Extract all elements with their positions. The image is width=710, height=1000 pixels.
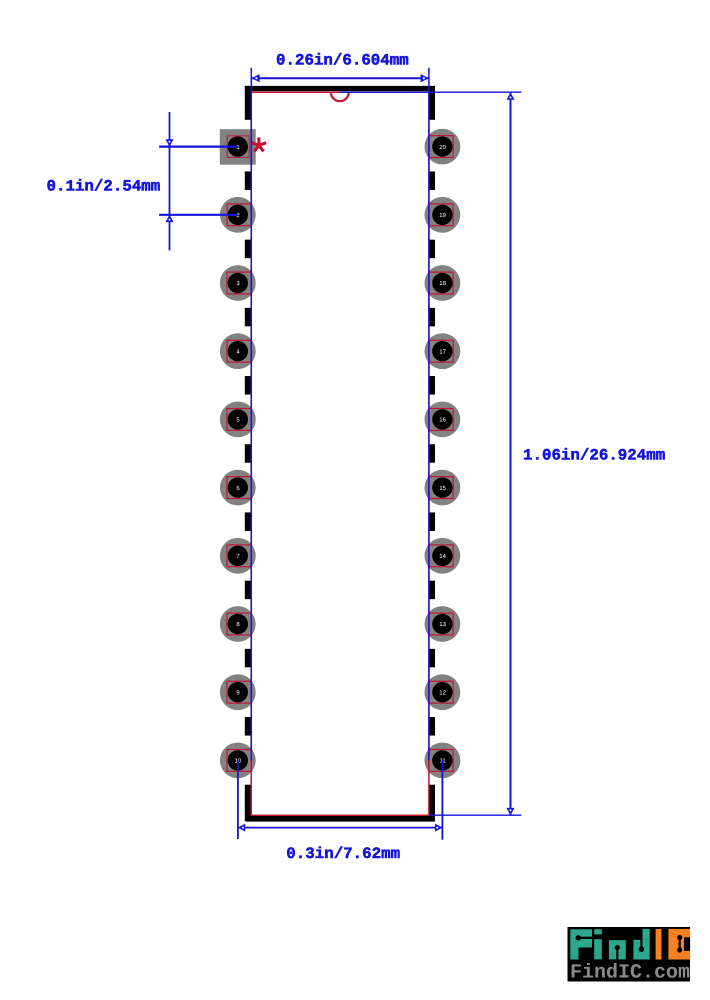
svg-text:13: 13: [439, 621, 446, 628]
pad pin 11: [425, 743, 461, 779]
package outline bottom edge: [247, 816, 435, 822]
pad pin 12: [425, 674, 461, 710]
pad pin 9: [220, 674, 256, 710]
dimension 0.26in/6.604mm line: [251, 77, 429, 79]
package outline top edge: [245, 86, 434, 91]
svg-text:14: 14: [439, 553, 446, 560]
svg-text:20: 20: [439, 144, 446, 151]
logo letter n: [609, 940, 626, 959]
svg-text:FindIC.com: FindIC.com: [570, 962, 690, 985]
dimension 1.06in/26.924mm extension top: [340, 91, 522, 93]
svg-text:12: 12: [439, 689, 446, 696]
svg-text:0.3in/7.62mm: 0.3in/7.62mm: [286, 845, 400, 863]
arrow left: [238, 824, 245, 832]
pad pin 1 (square): [220, 129, 256, 165]
logo letter I: [656, 929, 662, 960]
pin-1 notch arc: [331, 92, 349, 101]
arrow left: [251, 74, 259, 82]
dimension 0.26in/6.604mm extension line left: [250, 68, 252, 761]
pad pin 3: [220, 265, 256, 301]
pad pin 5: [220, 402, 256, 438]
svg-text:18: 18: [439, 280, 446, 287]
svg-text:0.26in/6.604mm: 0.26in/6.604mm: [276, 52, 409, 70]
dimension 0.26in/6.604mm extension line right: [428, 68, 430, 761]
pad pin 4: [220, 333, 256, 369]
package outline right edge (dashed): [429, 86, 435, 822]
arrow right: [421, 74, 429, 82]
dimension 0.3in/7.62mm extension right: [441, 760, 443, 839]
pad pin 7: [220, 538, 256, 574]
logo letter F: [570, 929, 592, 959]
dimension 0.1in/2.54mm leader pin2: [159, 214, 238, 216]
pad pin 15: [425, 470, 461, 506]
pad pin 8: [220, 606, 256, 642]
svg-text:15: 15: [439, 485, 446, 492]
dimension 0.1in/2.54mm leader pin1: [159, 146, 238, 148]
logo letter i: [594, 929, 602, 959]
arrow down: [166, 139, 174, 146]
pad pin 2: [220, 197, 256, 233]
pad pin 13: [425, 606, 461, 642]
logo letter C: [668, 929, 690, 960]
FindIC logo background: [568, 927, 691, 982]
svg-text:1.06in/26.924mm: 1.06in/26.924mm: [523, 446, 665, 464]
arrow up: [507, 93, 515, 100]
logo letter d: [633, 929, 649, 960]
svg-text:0.1in/2.54mm: 0.1in/2.54mm: [47, 178, 161, 196]
pad pin 17: [425, 333, 461, 369]
dimension 0.1in/2.54mm line: [169, 112, 171, 250]
pad pin 20: [425, 129, 461, 165]
package outline left edge (dashed): [245, 86, 252, 822]
arrow up: [166, 215, 174, 222]
body outline (red rect): [251, 92, 429, 815]
pad pin 18: [425, 265, 461, 301]
arrow right: [435, 824, 442, 832]
pad pin 19: [425, 197, 461, 233]
svg-text:19: 19: [439, 212, 446, 219]
pin-1 marker asterisk: [251, 137, 266, 151]
dimension 1.06in/26.924mm extension bottom: [429, 814, 522, 816]
pad pin 16: [425, 402, 461, 438]
svg-text:17: 17: [439, 348, 446, 355]
dimension 0.3in/7.62mm line: [238, 827, 443, 829]
dimension 0.3in/7.62mm extension left: [237, 760, 239, 839]
pad pin 14: [425, 538, 461, 574]
arrow down: [507, 808, 515, 815]
pad pin 10: [220, 743, 256, 779]
pad pin 6: [220, 470, 256, 506]
dimension 1.06in/26.924mm line: [510, 93, 512, 816]
svg-text:16: 16: [439, 417, 446, 424]
